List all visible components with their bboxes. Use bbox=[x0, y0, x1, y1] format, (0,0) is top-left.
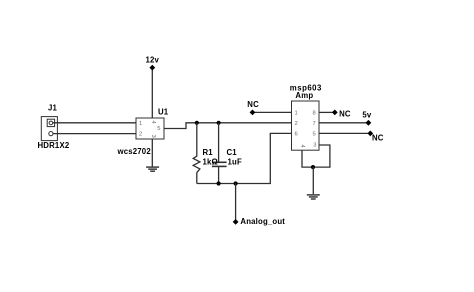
net terminal NC pin8 bbox=[332, 110, 338, 116]
svg-text:1: 1 bbox=[295, 111, 298, 117]
svg-text:C1: C1 bbox=[227, 148, 238, 157]
wire U1 pin3 to ground bbox=[151, 139, 153, 167]
pin numbers U1 bbox=[139, 121, 160, 138]
wire junction to ground bbox=[312, 167, 314, 194]
svg-text:1kΩ: 1kΩ bbox=[203, 158, 218, 167]
capacitor C1 bbox=[212, 123, 227, 184]
wire J1 pin2 to U1 pin2 bbox=[53, 133, 136, 135]
svg-text:2: 2 bbox=[295, 121, 298, 127]
svg-text:4: 4 bbox=[150, 121, 156, 125]
node ground junction bbox=[311, 165, 315, 169]
svg-text:12v: 12v bbox=[146, 56, 160, 65]
op-amp U2 msp603 body bbox=[292, 101, 320, 150]
wire U2 pin3 loop to pin4 bbox=[302, 145, 330, 167]
svg-text:1: 1 bbox=[139, 121, 142, 127]
wire U2 pin8 to NC bbox=[319, 111, 335, 113]
svg-text:8: 8 bbox=[313, 111, 316, 117]
svg-text:Amp: Amp bbox=[295, 91, 313, 100]
node C1 bottom bbox=[217, 181, 221, 185]
svg-text:wcs2702: wcs2702 bbox=[117, 147, 152, 156]
node R1 top bbox=[195, 121, 199, 125]
net terminal NC left bbox=[250, 110, 256, 116]
wire U2 pin1 to NC bbox=[253, 111, 292, 113]
svg-text:NC: NC bbox=[372, 134, 384, 143]
wire U1 pin4 to 12v bbox=[151, 68, 153, 118]
wire U2 pin7 to 5v bbox=[319, 122, 368, 124]
svg-text:NC: NC bbox=[247, 100, 259, 109]
wire to Analog_out bbox=[235, 184, 237, 221]
net terminal Analog_out bbox=[233, 219, 239, 225]
svg-text:3: 3 bbox=[313, 143, 316, 149]
IC U1 body bbox=[136, 118, 164, 139]
svg-text:4: 4 bbox=[299, 145, 305, 149]
svg-text:NC: NC bbox=[339, 110, 351, 119]
net terminal NC pin5 bbox=[367, 131, 373, 137]
svg-text:6: 6 bbox=[295, 132, 298, 138]
wire U1 pin5 to rail bbox=[164, 123, 292, 129]
wire U2 pin5 to NC bbox=[319, 132, 370, 134]
svg-text:3: 3 bbox=[150, 135, 156, 138]
svg-text:5v: 5v bbox=[362, 111, 372, 120]
svg-text:R1: R1 bbox=[203, 148, 214, 157]
net terminal 5v bbox=[366, 120, 372, 126]
svg-text:J1: J1 bbox=[48, 104, 58, 113]
wire J1 pin1 to U1 pin1 bbox=[53, 122, 136, 124]
node Analog_out junction bbox=[234, 181, 238, 185]
node C1 top bbox=[217, 121, 221, 125]
svg-text:5: 5 bbox=[157, 126, 160, 132]
ground symbol U1 bbox=[146, 167, 159, 171]
svg-text:5: 5 bbox=[313, 132, 316, 138]
svg-text:U1: U1 bbox=[158, 108, 169, 117]
svg-text:7: 7 bbox=[313, 121, 316, 127]
pin numbers U2 bbox=[295, 111, 317, 149]
resistor R1 bbox=[193, 123, 200, 184]
wire bottom rail to U2 pin6 bbox=[197, 133, 292, 183]
svg-text:HDR1X2: HDR1X2 bbox=[38, 141, 70, 150]
svg-text:2: 2 bbox=[139, 132, 142, 138]
svg-text:Analog_out: Analog_out bbox=[240, 217, 285, 226]
svg-text:1uF: 1uF bbox=[228, 158, 242, 167]
connector J1 body bbox=[41, 117, 57, 141]
ground symbol U2 bbox=[307, 195, 320, 199]
power 12v terminal bbox=[149, 65, 155, 71]
